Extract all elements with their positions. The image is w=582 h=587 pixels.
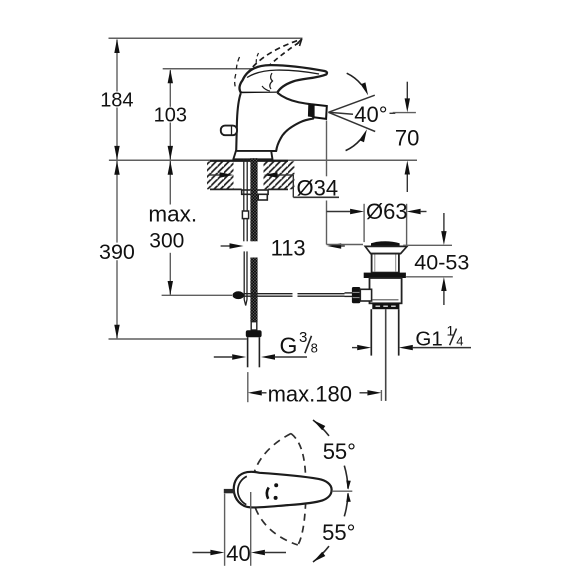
dimension O63: [327, 204, 427, 247]
svg-text:Ø34: Ø34: [297, 176, 339, 201]
svg-text:103: 103: [154, 104, 187, 126]
mounting nut: [258, 194, 267, 200]
aerator collar: [308, 104, 314, 117]
label 40: [226, 541, 250, 566]
label 390: [99, 240, 135, 264]
handle top view inner arc: [238, 476, 247, 504]
dimension 70 arrows: [405, 82, 410, 192]
svg-text:3: 3: [299, 329, 307, 346]
angle arc lower 40deg: [346, 129, 367, 150]
swivel arc lower 55deg: [313, 493, 351, 562]
counter slab outline: [210, 161, 288, 190]
threaded shank upper: [250, 158, 257, 241]
counter slab hatching right: [264, 161, 295, 189]
svg-text:184: 184: [100, 89, 133, 111]
dimension line 184 top reference: [109, 37, 303, 39]
counter slab hatching left: [207, 161, 234, 189]
raised lever dashed outline: [242, 39, 302, 87]
spout shadow under base: [242, 158, 270, 161]
drain body lower: [370, 278, 402, 303]
dimension G38 arrows: [214, 354, 307, 359]
svg-text:55°: 55°: [323, 439, 356, 464]
svg-text:40°: 40°: [354, 102, 387, 127]
label 70: [395, 126, 419, 151]
spray line middle: [328, 112, 353, 114]
aerator reference line: [327, 121, 364, 245]
label 184: [100, 89, 133, 111]
dimension 184 vertical line: [114, 39, 119, 160]
drain rod connector: [360, 289, 371, 301]
dimension G114 arrows: [352, 345, 471, 350]
label O34: [297, 176, 339, 201]
swivel envelope dashed: [252, 434, 306, 546]
dimension 40: [193, 492, 287, 566]
label 55deg lower: [322, 520, 355, 545]
drain rod stub: [345, 293, 353, 297]
mounting washer: [242, 190, 268, 194]
pop-up lever reference line: [162, 294, 232, 296]
svg-text:8: 8: [311, 341, 318, 356]
drain bottom nut: [372, 303, 399, 309]
threaded shank lower: [250, 258, 257, 322]
handle top view outline: [234, 472, 332, 508]
dimension 390 vertical line: [114, 161, 119, 339]
svg-text:70: 70: [395, 126, 419, 151]
svg-text:4: 4: [456, 334, 463, 349]
svg-text:max.: max.: [148, 202, 197, 227]
svg-text:40-53: 40-53: [414, 250, 469, 274]
dimension max.180: [248, 372, 382, 402]
dimension 103 vertical line: [168, 69, 173, 160]
drain rod knob: [352, 287, 360, 303]
rod ball joint: [233, 291, 245, 299]
counter reference line: [109, 159, 417, 161]
label leader O34: [293, 175, 339, 197]
pop-up rod upper: [244, 159, 247, 242]
label max.180: [268, 381, 352, 406]
hose end fitting: [246, 330, 262, 337]
dimension 113: [221, 243, 345, 248]
label G38: [280, 329, 318, 359]
pop-up actuating rod: [244, 294, 345, 297]
label 40deg: [354, 102, 395, 127]
svg-text:max.180: max.180: [268, 381, 352, 406]
faucet body: [236, 93, 313, 151]
dimension 40-53: [403, 213, 453, 305]
svg-text:300: 300: [149, 229, 184, 252]
drain center line: [385, 309, 387, 401]
label max.300: [148, 202, 197, 253]
svg-text:Ø63: Ø63: [366, 199, 408, 224]
shank end piece: [251, 322, 257, 330]
svg-text:G1: G1: [415, 327, 442, 350]
svg-text:G: G: [280, 332, 298, 358]
handle base thick joint: [241, 92, 278, 95]
hose end reference line: [109, 338, 247, 340]
motion marks left of lever: [235, 53, 259, 87]
supply tube G38: [248, 337, 260, 367]
handle center line: [332, 490, 353, 492]
pop-up rod clamp: [242, 211, 248, 219]
spray line upper: [328, 95, 374, 112]
swivel arc upper 55deg: [313, 420, 351, 490]
faucet base: [233, 151, 272, 159]
drain rubber washer: [364, 273, 406, 278]
svg-text:390: 390: [99, 240, 135, 264]
dimension max.300 vertical line: [168, 161, 173, 295]
label O63: [366, 199, 408, 224]
angle arc upper 40deg: [347, 73, 368, 95]
pop-up rod lower: [244, 251, 247, 305]
label 103: [154, 104, 187, 126]
label 40-53: [414, 250, 469, 274]
svg-text:113: 113: [271, 235, 306, 260]
aerator mousseur: [314, 105, 327, 119]
dimension hole diameter arrows: [209, 172, 293, 177]
handle pivot stub: [224, 489, 235, 493]
pop-up pull knob: [221, 126, 237, 136]
label G114: [415, 323, 463, 351]
drain pop-up cap: [371, 241, 400, 246]
dimension 70 upper reference: [393, 112, 416, 114]
label 113: [271, 235, 306, 260]
drain body upper: [372, 254, 399, 273]
spray line lower: [328, 112, 375, 131]
drain flange: [365, 246, 407, 253]
svg-text:40: 40: [226, 541, 250, 566]
faucet lever handle: [239, 65, 327, 94]
label 55deg upper: [323, 439, 356, 464]
dimension line 103 top reference: [163, 68, 252, 70]
drain tailpipe: [371, 309, 398, 355]
svg-text:55°: 55°: [322, 520, 355, 545]
handle top view marks: [267, 483, 278, 500]
